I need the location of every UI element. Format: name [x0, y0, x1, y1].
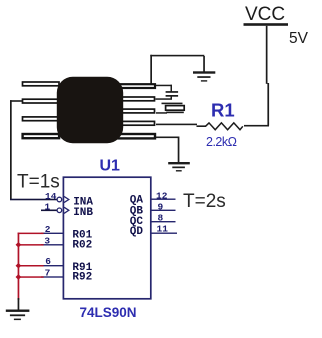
pin 14 clock triangle	[64, 196, 69, 202]
svg-text:VCC: VCC	[245, 4, 285, 25]
svg-text:3: 3	[44, 235, 50, 246]
svg-text:R92: R92	[72, 272, 92, 284]
junction dot pin6	[16, 263, 22, 269]
pin 14 bubble	[57, 197, 62, 202]
svg-text:2: 2	[45, 224, 51, 235]
wire red pin 2	[18, 233, 44, 235]
stub U1 pin 2	[41, 233, 63, 234]
capacitor plate top	[166, 91, 179, 93]
svg-text:U1: U1	[100, 158, 121, 175]
junction dot pin7	[16, 274, 22, 280]
pin 3 of photo	[23, 117, 60, 121]
svg-text:11: 11	[157, 224, 169, 235]
pin 11 of photo	[118, 121, 155, 125]
stub U1 pin 6	[41, 265, 63, 266]
pin 2 of photo	[23, 99, 60, 103]
svg-text:INB: INB	[73, 207, 93, 219]
ground	[193, 71, 215, 81]
capacitor plate bottom	[166, 95, 179, 97]
svg-text:9: 9	[158, 201, 164, 212]
svg-text:1: 1	[45, 202, 51, 213]
pin 4 of photo (bottom-left)	[23, 134, 60, 138]
wire photo pin 11 to R1	[156, 124, 197, 126]
wire red vertical bus	[18, 233, 20, 300]
wire R1 right lead to VCC	[244, 125, 269, 127]
crystal X1 top plate	[162, 103, 183, 105]
svg-text:12: 12	[156, 190, 168, 201]
svg-text:5V: 5V	[289, 30, 309, 47]
svg-text:T=1s: T=1s	[17, 172, 60, 193]
pin 12 of photo	[118, 109, 155, 113]
chip photo body U1	[57, 77, 123, 143]
svg-text:8: 8	[158, 212, 164, 223]
wire vertical into chip pin	[150, 55, 152, 85]
pin 1 of photo (top-left)	[23, 82, 60, 86]
pin 13 of photo	[118, 97, 155, 101]
wire photo pin 10 to ground2	[156, 137, 179, 163]
op IC U1 box	[63, 177, 150, 299]
wire ground1 stem	[203, 56, 205, 72]
stub U1 pin 11	[151, 233, 177, 234]
wire red pin 3	[18, 244, 44, 246]
wire photo pin 2 down-left to U1 pin 14	[10, 100, 23, 200]
stub U1 pin 3	[41, 244, 63, 245]
stub U1 pin 12	[151, 199, 176, 200]
junction dot pin3	[16, 242, 22, 248]
svg-text:QD: QD	[130, 226, 144, 238]
svg-text:74LS90N: 74LS90N	[80, 305, 137, 320]
stub U1 pin 9	[151, 210, 176, 211]
svg-text:2.2kΩ: 2.2kΩ	[206, 135, 237, 149]
svg-text:R1: R1	[211, 100, 235, 121]
ground	[168, 162, 190, 172]
stub U1 pin 8	[151, 221, 176, 222]
resistor R1	[197, 123, 243, 130]
stub U1 pin 7	[41, 276, 63, 277]
wire red pin 6	[18, 265, 44, 267]
wire U1 pin 14	[10, 199, 57, 201]
pin 14 of photo (top-right)	[115, 84, 155, 88]
wire photo pin 12 to crystal	[156, 112, 167, 114]
pin 1 clock triangle	[64, 207, 69, 213]
svg-text:14: 14	[45, 191, 57, 202]
wire from photo pin 14 to capacitor	[156, 85, 172, 92]
pin 10 of photo (bottom-right)	[115, 134, 155, 138]
crystal X1 bottom plate	[166, 112, 184, 114]
svg-text:T=2s: T=2s	[183, 191, 226, 212]
wire top horizontal to ground	[150, 55, 204, 57]
wire U1 pin 1	[41, 210, 57, 212]
svg-text:7: 7	[45, 267, 51, 278]
svg-text:6: 6	[45, 256, 51, 267]
pin 1 bubble	[57, 208, 62, 213]
ground	[6, 310, 30, 321]
wire capacitor to photo pin 13	[156, 97, 173, 100]
wire VCC vertical	[266, 26, 269, 126]
node VCC	[244, 4, 289, 26]
crystal X1 body	[166, 106, 185, 111]
svg-text:R02: R02	[72, 240, 92, 252]
wire red pin 7	[18, 276, 44, 278]
wire ground3 stem	[18, 298, 20, 310]
